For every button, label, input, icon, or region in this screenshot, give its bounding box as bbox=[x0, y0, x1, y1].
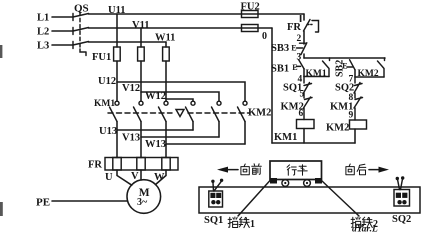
svg-text:KM1: KM1 bbox=[94, 99, 115, 109]
trolley text 行车 bbox=[287, 165, 307, 176]
leader line to stop iron 2 bbox=[322, 181, 360, 217]
wire V13 cross bbox=[141, 136, 219, 138]
text 挡铁1 bbox=[228, 217, 255, 230]
wire node W12 to KM2 pole1 bbox=[166, 99, 193, 101]
svg-text:QS: QS bbox=[74, 3, 89, 15]
node 1 label bbox=[300, 15, 302, 22]
svg-text:V13: V13 bbox=[122, 133, 140, 144]
svg-text:FR: FR bbox=[287, 22, 301, 33]
thermal relay FR heater block bbox=[105, 158, 178, 171]
trolley rail box bbox=[199, 187, 420, 213]
svg-text:SB1: SB1 bbox=[271, 64, 289, 75]
wire U13 cross bbox=[117, 129, 193, 131]
wire fuse2 to KM1 pole2 bbox=[140, 61, 142, 101]
svg-text:U: U bbox=[105, 172, 113, 183]
svg-text:KM1: KM1 bbox=[274, 132, 297, 143]
fuse FU2 phase b bbox=[242, 25, 259, 32]
contactor KM1 auxiliary contact (self-hold) bbox=[304, 58, 330, 79]
arrow backward (right) bbox=[369, 167, 389, 173]
coil KM2 bbox=[350, 120, 367, 129]
linkage triangle symbol bbox=[176, 110, 184, 117]
wire branch top rail bbox=[304, 57, 385, 59]
svg-text:FU1: FU1 bbox=[92, 52, 111, 63]
svg-text:W11: W11 bbox=[155, 33, 175, 44]
mechanical linkage dashed left bbox=[108, 112, 172, 114]
switch QS pole 1 bbox=[73, 14, 89, 21]
motor M bbox=[127, 180, 161, 214]
contactor KM2 main contact pole 3 bbox=[238, 101, 248, 121]
wire FR to SB3 bbox=[303, 31, 305, 44]
stop button SB3 (NC) bbox=[297, 43, 307, 55]
svg-text:SB3: SB3 bbox=[271, 43, 289, 54]
contactor KM2 main contact pole 2 bbox=[212, 101, 222, 121]
limit switch SQ2 contact bbox=[354, 77, 362, 98]
contactor KM2 auxiliary contact (self-hold) bbox=[355, 58, 385, 79]
svg-text:SQ2: SQ2 bbox=[335, 83, 354, 94]
wire fuse1 to KM1 pole1 bbox=[116, 61, 118, 101]
wire KM1 pole3 down bbox=[165, 122, 167, 158]
svg-text:dYar.L: dYar.L bbox=[352, 225, 378, 235]
svg-text:W13: W13 bbox=[145, 139, 166, 150]
wire bottom rail bbox=[272, 142, 355, 144]
contactor KM1 main contact pole 1 bbox=[110, 101, 120, 121]
wire U11 top line bbox=[89, 13, 305, 15]
wire U11 drop bbox=[116, 14, 118, 47]
svg-text:E: E bbox=[291, 44, 296, 53]
wire U to motor bbox=[117, 170, 132, 185]
wire KM2 pole1 to U13 bbox=[192, 122, 194, 131]
wire KM2 coil to bottom rail bbox=[354, 129, 356, 143]
wire node V12 to KM2 pole2 bbox=[141, 92, 219, 101]
wire fuse3 to KM1 pole3 bbox=[165, 61, 167, 101]
limit switch SQ1 device bbox=[209, 179, 224, 207]
wire W to motor bbox=[155, 170, 166, 185]
coil KM1 bbox=[297, 120, 315, 129]
start button SB1 (NO) bbox=[296, 60, 304, 69]
contactor KM1 main contact pole 3 bbox=[159, 101, 169, 121]
text 向后 bbox=[346, 164, 366, 175]
svg-text:KM1: KM1 bbox=[306, 69, 327, 79]
thermal relay FR trip contact bbox=[304, 20, 319, 33]
wire node U12 to KM2 pole3 bbox=[117, 82, 245, 101]
scan artifact left edge lower bbox=[0, 202, 3, 216]
svg-text:SQ1: SQ1 bbox=[204, 215, 223, 226]
svg-text:0: 0 bbox=[262, 31, 267, 42]
wire KM1 pole1 down bbox=[116, 122, 118, 158]
wire V to motor bbox=[140, 170, 142, 180]
wire SB3 to node3 bbox=[303, 54, 305, 58]
switch QS pole 3 bbox=[73, 42, 89, 49]
fuse FU2 phase a bbox=[242, 11, 259, 18]
svg-text:U12: U12 bbox=[98, 76, 116, 87]
svg-text:KM2: KM2 bbox=[358, 69, 379, 79]
contactor KM1 main contact pole 2 bbox=[134, 101, 144, 121]
svg-text:5: 5 bbox=[300, 90, 305, 100]
start button SB2 (NO) bbox=[347, 60, 355, 70]
wire SB2 to node7 bbox=[354, 70, 356, 77]
text 挡铁2 bbox=[351, 217, 378, 230]
wire U11 corner down to FR contact bbox=[303, 14, 305, 20]
wire V11 drop bbox=[140, 28, 142, 47]
wire L1 lead bbox=[52, 16, 73, 18]
scan artifact left edge upper bbox=[0, 45, 2, 58]
wire L2 lead bbox=[52, 30, 73, 32]
wire KM2 pole2 to V13 bbox=[218, 122, 220, 138]
svg-text:9: 9 bbox=[349, 111, 354, 121]
wire W13 cross bbox=[166, 143, 245, 145]
svg-text:L2: L2 bbox=[37, 27, 49, 38]
svg-text:PE: PE bbox=[36, 197, 50, 209]
contactor KM1 interlock contact (NC) bbox=[354, 97, 363, 120]
wire KM1 coil to bottom rail bbox=[303, 129, 305, 144]
svg-text:6: 6 bbox=[299, 109, 304, 119]
contactor KM2 interlock contact (NC) bbox=[304, 97, 313, 120]
contactor KM2 main contact pole 1 bbox=[186, 101, 196, 121]
limit switch SQ2 device bbox=[394, 176, 410, 206]
wire L3 lead bbox=[52, 44, 73, 46]
svg-text:KM2: KM2 bbox=[248, 108, 271, 119]
fuse FU1 phase 3 bbox=[163, 47, 170, 61]
limit switch SQ1 contact bbox=[304, 77, 312, 99]
wire W11 line bbox=[89, 41, 167, 43]
svg-text:L1: L1 bbox=[37, 13, 49, 24]
switch QS pole 2 bbox=[73, 28, 89, 35]
wire W11 drop bbox=[165, 42, 167, 47]
svg-text:W12: W12 bbox=[145, 91, 166, 102]
trolley wheel left bbox=[282, 180, 289, 187]
wire PE to motor bbox=[52, 200, 127, 202]
svg-text:L3: L3 bbox=[37, 41, 49, 52]
svg-text:E: E bbox=[292, 63, 297, 72]
mechanical linkage dashed right bbox=[188, 112, 250, 114]
fuse FU1 phase 1 bbox=[114, 47, 121, 61]
trolley stop block left bbox=[270, 178, 277, 184]
svg-text:E: E bbox=[342, 61, 347, 70]
switch QS linkage dashed bbox=[80, 12, 86, 56]
trolley wheel right bbox=[304, 180, 311, 187]
svg-text:V12: V12 bbox=[122, 83, 140, 94]
svg-text:KM2: KM2 bbox=[326, 123, 349, 134]
leader line to stop iron 1 bbox=[238, 181, 270, 217]
arrow forward (left) bbox=[217, 167, 238, 173]
svg-text:U13: U13 bbox=[99, 126, 117, 137]
svg-text:3~: 3~ bbox=[137, 197, 148, 208]
svg-text:1: 1 bbox=[250, 219, 255, 230]
wire V11 to 0 rail corner bbox=[271, 28, 273, 143]
text 向前 bbox=[241, 164, 261, 175]
wire KM1 pole2 down bbox=[140, 122, 142, 158]
wire KM2 pole3 to W13 bbox=[244, 122, 246, 145]
wire V11 line bbox=[89, 27, 273, 29]
svg-text:FR: FR bbox=[88, 160, 102, 171]
svg-text:SQ2: SQ2 bbox=[392, 214, 411, 225]
wire SB1 to node4 bbox=[303, 69, 305, 77]
trolley stop block right bbox=[315, 178, 322, 184]
trolley body box bbox=[270, 161, 322, 180]
fuse FU1 phase 2 bbox=[138, 47, 145, 61]
